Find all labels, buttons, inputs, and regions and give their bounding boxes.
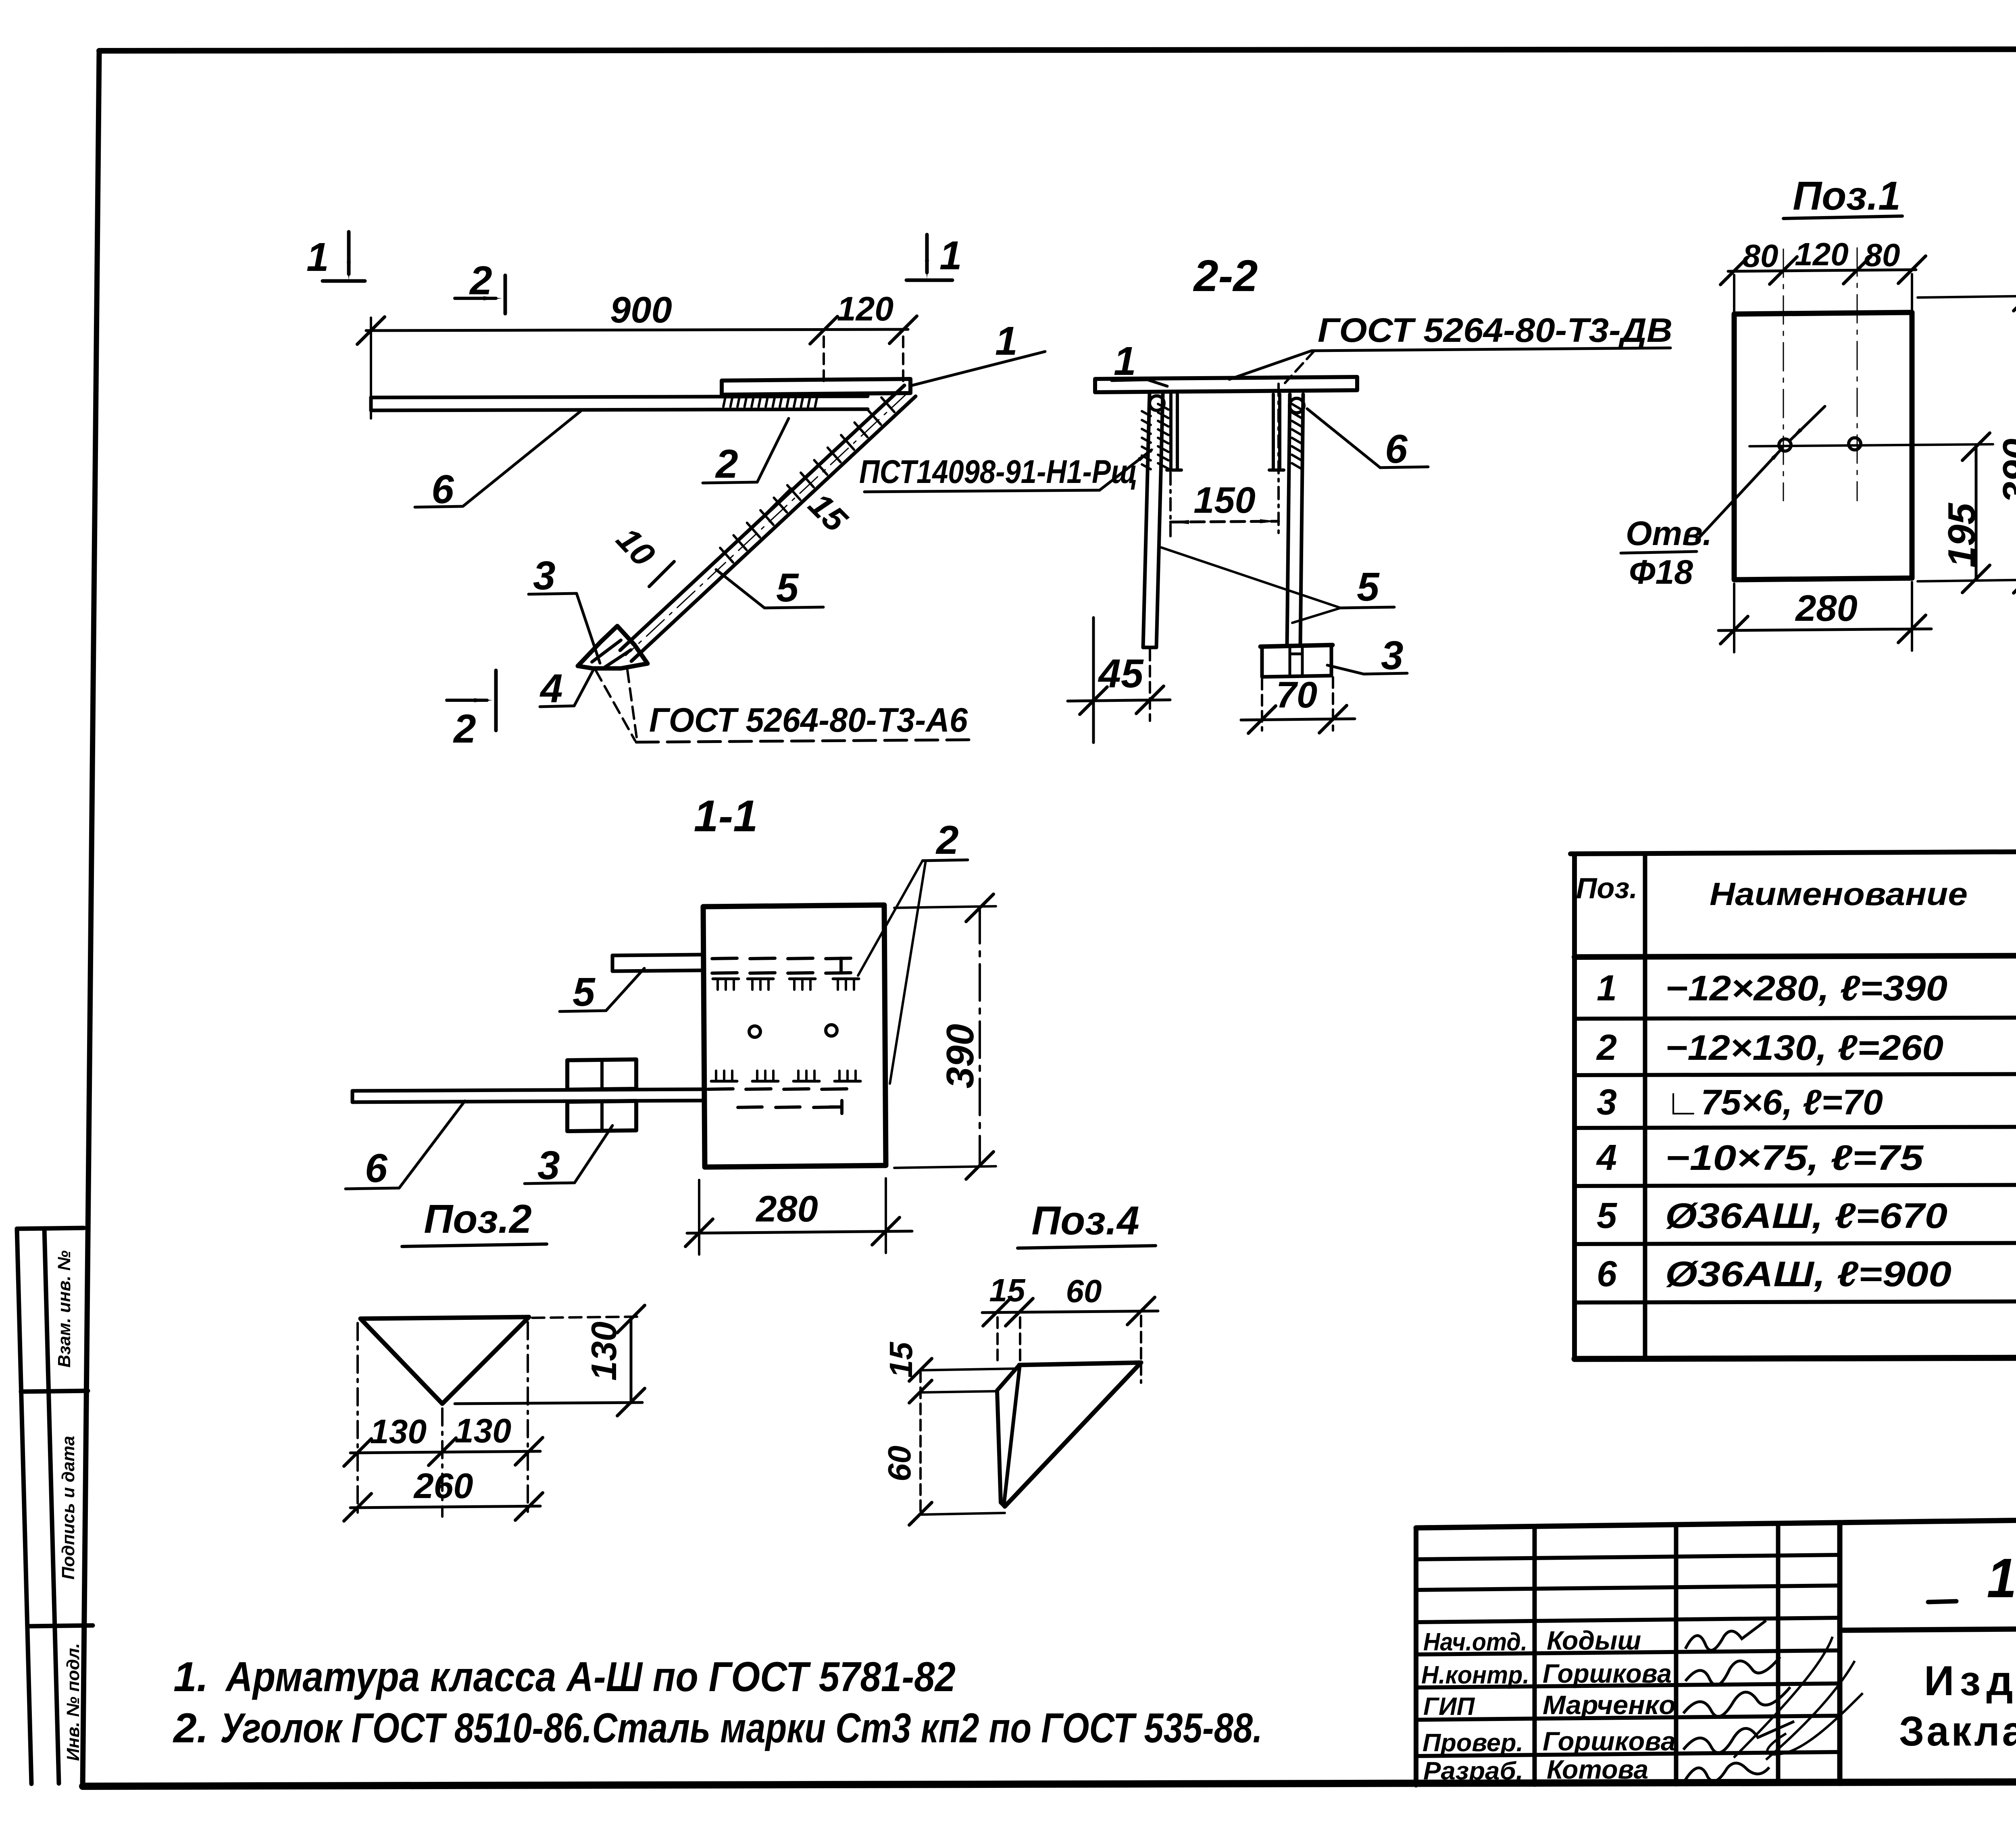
- svg-text:1: 1: [939, 233, 962, 278]
- svg-text:5: 5: [1597, 1196, 1618, 1236]
- diagonal bar pos5 upper line: [620, 385, 904, 650]
- svg-text:ГОСТ 5264-80-Т3-ДВ: ГОСТ 5264-80-Т3-ДВ: [1318, 311, 1672, 349]
- svg-text:Арматура класса А-Ш по ГОСТ: Арматура класса А-Ш по ГОСТ 5781-82: [225, 1654, 956, 1700]
- svg-text:−12×130, ℓ=260: −12×130, ℓ=260: [1665, 1028, 1943, 1067]
- plate pos1 (2-2): [1095, 377, 1357, 392]
- pos4 dashed verticals: [996, 1317, 999, 1364]
- lower bar pos6 (1-1): [352, 1089, 703, 1091]
- svg-text:Горшкова: Горшкова: [1543, 1658, 1672, 1688]
- title block top edge: [1416, 1513, 2016, 1528]
- svg-text:∟75×6, ℓ=70: ∟75×6, ℓ=70: [1665, 1082, 1883, 1122]
- pos1 hole centerlines: [1783, 249, 1784, 501]
- pos1 holes: [1779, 439, 1791, 451]
- title block left edge: [1414, 1528, 1418, 1785]
- svg-text:−12×280, ℓ=390: −12×280, ℓ=390: [1665, 968, 1947, 1008]
- bar pos6 cross-section circle left: [1150, 396, 1164, 410]
- svg-text:1: 1: [306, 235, 329, 280]
- holes (1-1): [749, 1026, 760, 1037]
- large flourish: [1734, 1637, 1863, 1760]
- parts table grid: [1570, 850, 2016, 854]
- weld ticks along diagonal: [881, 397, 894, 412]
- pos2 triangle: [360, 1317, 529, 1404]
- pos4 left dim 15: [921, 1369, 1015, 1370]
- leader 1 line: [910, 352, 1045, 386]
- pos4 gusset 3d shape: [1019, 1363, 1141, 1365]
- svg-text:Наименование: Наименование: [1710, 876, 1968, 912]
- pos1 dim 195: [1975, 446, 1978, 580]
- left hanger bar pos5 (2-2): [1143, 394, 1150, 647]
- hidden plate dashes upper row B: [712, 973, 737, 973]
- pos1 hole axis line: [1749, 444, 1993, 446]
- svg-text:60: 60: [1066, 1273, 1102, 1309]
- plate pos2 edge left (2-2): [1169, 394, 1173, 469]
- svg-text:Подпись и дата: Подпись и дата: [58, 1436, 78, 1580]
- svg-text:Поз.: Поз.: [1576, 872, 1638, 905]
- svg-text:Поз.2: Поз.2: [424, 1196, 531, 1242]
- svg-text:Разраб.: Разраб.: [1423, 1757, 1523, 1785]
- section mark 2 top: tick and arrow: [504, 275, 507, 314]
- svg-text:2: 2: [469, 258, 492, 303]
- svg-text:Ø36АШ, ℓ=670: Ø36АШ, ℓ=670: [1665, 1196, 1947, 1236]
- dim 280 (1-1): [698, 1180, 700, 1255]
- bar pos6 cross-section circle right: [1289, 398, 1304, 413]
- svg-text:280: 280: [755, 1188, 818, 1230]
- pos2 right dim 130: [630, 1318, 633, 1403]
- section mark 1 right: arrow: [925, 235, 929, 273]
- left margin stamp box: [17, 1229, 31, 1784]
- svg-text:Кодыш: Кодыш: [1547, 1625, 1641, 1655]
- section mark 2 bottom: tick and arrow: [494, 670, 498, 730]
- section mark 1 left: arrow: [347, 232, 351, 274]
- weld ticks under plate: [723, 395, 726, 407]
- hidden plate dashes upper row A: [712, 958, 737, 959]
- svg-text:2: 2: [715, 441, 738, 487]
- pos1 plate rectangle: [1734, 312, 1912, 580]
- svg-text:Котова: Котова: [1547, 1754, 1648, 1784]
- dim 390 (1-1): [894, 906, 996, 908]
- weld tick clusters upper: [713, 978, 739, 980]
- svg-text:2: 2: [935, 818, 959, 863]
- svg-text:Инв. № подл.: Инв. № подл.: [63, 1643, 83, 1761]
- bar pos6 left end: [369, 397, 373, 410]
- svg-text:5: 5: [1357, 564, 1380, 610]
- hidden bar dashes lower row A: [708, 1089, 733, 1089]
- svg-text:Отв.: Отв.: [1626, 514, 1712, 552]
- weld gusset pos4 blob: [578, 626, 648, 668]
- svg-text:900: 900: [610, 289, 672, 331]
- svg-text:2: 2: [1596, 1028, 1617, 1068]
- svg-text:4: 4: [539, 666, 563, 711]
- svg-text:Ф18: Ф18: [1629, 553, 1693, 591]
- pos1 arrow to hole: [1790, 406, 1825, 440]
- dim 900/120: extension dashes: [823, 337, 825, 382]
- svg-text:ГИП: ГИП: [1423, 1693, 1475, 1721]
- svg-text:150: 150: [1193, 480, 1256, 521]
- svg-text:80: 80: [1864, 237, 1900, 273]
- pos4 top dim line: [982, 1311, 1158, 1313]
- svg-text:390: 390: [1995, 439, 2016, 503]
- svg-text:5: 5: [573, 970, 596, 1015]
- plate pos2 edge right (2-2): [1278, 394, 1281, 469]
- svg-text:Поз.1: Поз.1: [1793, 173, 1900, 218]
- pos2 dashed verticals: [356, 1323, 359, 1517]
- sheet frame left: [83, 51, 99, 1786]
- svg-text:Взам. инв. №: Взам. инв. №: [54, 1251, 74, 1368]
- pos2 apex extension: [455, 1402, 642, 1404]
- diagonal bar centerline: [626, 391, 910, 655]
- signature table horizontals (upper empty rows): [1416, 1555, 1840, 1559]
- svg-text:3: 3: [533, 553, 556, 598]
- right hanger bar pos5 (2-2): [1287, 394, 1290, 646]
- pos2 dim 260: [350, 1506, 540, 1508]
- stamp divider 1: [21, 1391, 88, 1392]
- svg-text:45: 45: [1098, 651, 1144, 696]
- svg-text:280: 280: [1795, 588, 1858, 629]
- svg-text:Провер.: Провер.: [1422, 1729, 1523, 1757]
- dim 900/120: extension line left: [370, 318, 372, 418]
- pos1 top dim line: [1728, 270, 1916, 271]
- svg-text:195: 195: [1940, 502, 1983, 568]
- svg-text:1.: 1.: [173, 1654, 208, 1700]
- svg-text:390: 390: [939, 1024, 982, 1088]
- svg-text:Ø36АШ, ℓ=900: Ø36АШ, ℓ=900: [1665, 1254, 1951, 1294]
- weld hatch outside left bar: [1142, 411, 1151, 416]
- svg-text:1: 1: [995, 318, 1018, 364]
- signature table verticals: [1533, 1527, 1537, 1785]
- upper bar pos5 (1-1): [612, 955, 703, 955]
- sheet frame bottom: [83, 1781, 2016, 1786]
- svg-text:70: 70: [1276, 674, 1317, 716]
- dim 900/120: dimension line: [366, 329, 908, 331]
- nut plates pos3 (1-1): [567, 1059, 636, 1090]
- doc number cell bottom: [1840, 1625, 2016, 1630]
- leaders to gusset: [596, 670, 635, 741]
- svg-text:5: 5: [776, 565, 799, 610]
- svg-text:Нач.отд.: Нач.отд.: [1423, 1628, 1527, 1656]
- bar pos6 bottom line: [371, 409, 868, 410]
- svg-text:1.420.1-32. 2-4-17: 1.420.1-32. 2-4-17: [1987, 1547, 2016, 1609]
- svg-text:2.: 2.: [173, 1705, 208, 1752]
- svg-text:−10×75, ℓ=75: −10×75, ℓ=75: [1665, 1138, 1924, 1178]
- svg-text:6: 6: [1385, 427, 1408, 472]
- dim 150 (2-2): [1169, 472, 1172, 537]
- signature table horizontals (named rows): [1416, 1650, 1840, 1654]
- pos1 dim 280: [1733, 584, 1735, 652]
- svg-text:4: 4: [1596, 1138, 1617, 1178]
- svg-text:Закладное МН-2: Закладное МН-2: [1899, 1708, 2016, 1755]
- svg-text:10: 10: [609, 520, 662, 573]
- svg-text:2: 2: [453, 706, 476, 751]
- dim 45 (2-2): [1092, 618, 1095, 743]
- pos2 dim 130 130: [350, 1451, 540, 1453]
- svg-text:Изделие: Изделие: [1924, 1658, 2016, 1704]
- sheet frame top: [99, 49, 2016, 51]
- svg-text:Н.контр.: Н.контр.: [1421, 1661, 1529, 1689]
- svg-text:Уголок ГОСТ 8510-86.Сталь марк: Уголок ГОСТ 8510-86.Сталь марки Ст3 кп2 …: [220, 1705, 1262, 1752]
- svg-text:15: 15: [883, 1342, 919, 1378]
- stamp divider 2: [27, 1625, 93, 1626]
- svg-text:6: 6: [1597, 1254, 1617, 1294]
- svg-text:3: 3: [1597, 1082, 1617, 1123]
- svg-text:130: 130: [370, 1413, 427, 1450]
- svg-text:130: 130: [584, 1321, 624, 1381]
- bar pos6 top line: [371, 396, 868, 397]
- svg-text:6: 6: [365, 1146, 388, 1191]
- svg-text:ПСТ14098-91-Н1-Рщ: ПСТ14098-91-Н1-Рщ: [859, 454, 1137, 490]
- svg-text:60: 60: [881, 1446, 917, 1482]
- svg-text:1: 1: [1597, 968, 1617, 1009]
- weld hatch right bar: [1292, 404, 1302, 410]
- main divider: [1837, 1523, 1843, 1783]
- svg-text:120: 120: [837, 290, 893, 328]
- dim 15 on diagonal: [765, 489, 791, 515]
- svg-text:Поз.4: Поз.4: [1031, 1198, 1139, 1243]
- svg-text:Марченко: Марченко: [1543, 1690, 1676, 1720]
- signatures scribbles: [1685, 1621, 1766, 1650]
- plate pos1 rect (1-1): [703, 905, 886, 1167]
- svg-text:Горшкова: Горшкова: [1543, 1726, 1676, 1756]
- svg-text:ГОСТ 5264-80-Т3-А6: ГОСТ 5264-80-Т3-А6: [649, 701, 968, 739]
- diagonal bar pos5 lower line: [631, 396, 916, 661]
- weld hatch left bar: [1158, 404, 1168, 410]
- svg-text:260: 260: [413, 1466, 473, 1506]
- angle pos3 (2-2): [1260, 645, 1333, 647]
- pos1 extension lines: [1733, 275, 1735, 313]
- svg-text:3: 3: [537, 1143, 560, 1188]
- hidden bar dashes lower row B: [738, 1107, 762, 1107]
- weld tick clusters lower: [711, 1080, 737, 1083]
- dim 70 (2-2): [1261, 679, 1263, 730]
- pos1 dim 390: [1918, 296, 2016, 298]
- svg-text:2-2: 2-2: [1193, 251, 1258, 301]
- svg-text:3: 3: [1381, 633, 1404, 678]
- pos4 left dim 60: [919, 1371, 922, 1514]
- svg-text:1-1: 1-1: [694, 791, 758, 841]
- svg-text:130: 130: [455, 1412, 511, 1450]
- plate pos1 side view: [722, 379, 910, 395]
- svg-text:120: 120: [1795, 236, 1848, 272]
